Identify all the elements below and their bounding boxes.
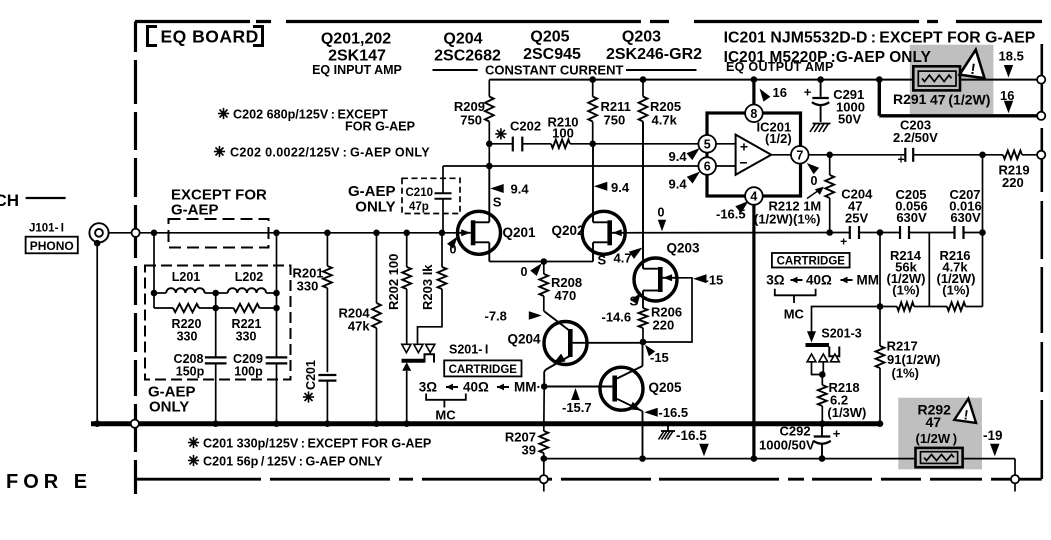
label CH <box>0 191 66 210</box>
svg-text:330: 330 <box>297 279 319 294</box>
svg-text:330: 330 <box>177 330 198 344</box>
svg-text:-16.5: -16.5 <box>716 207 746 222</box>
voltage 9.4 at Q201 drain line <box>490 182 529 197</box>
svg-text:220: 220 <box>1002 175 1024 190</box>
svg-text:L201: L201 <box>172 270 201 284</box>
capacitor C209 100p <box>233 352 287 379</box>
svg-text:R203 Ik: R203 Ik <box>420 264 435 310</box>
svg-text:9.4: 9.4 <box>669 177 688 192</box>
svg-text:G-AEP: G-AEP <box>171 202 219 219</box>
voltage 0 at pin 7 <box>807 163 819 188</box>
open circle bus at border <box>131 420 139 428</box>
EQ board outline bottom border <box>136 478 1042 481</box>
voltage -16.5 at line <box>676 428 709 456</box>
resistor R203 1k <box>418 233 447 344</box>
dashed box EXCEPT FOR G-AEP jumper <box>169 219 269 248</box>
junction network node B <box>979 229 986 236</box>
svg-text:(1%): (1%) <box>892 283 919 298</box>
svg-text:0: 0 <box>521 265 528 279</box>
open circle -19V at border <box>1011 475 1019 483</box>
svg-text:5: 5 <box>704 138 711 152</box>
wire C209 to ground bus <box>276 364 278 424</box>
voltage -16.5 at Q205 emitter <box>644 405 688 420</box>
svg-text:-16.5: -16.5 <box>676 428 707 443</box>
wire node A drop <box>153 233 155 308</box>
arrow at R212 top <box>807 187 824 199</box>
voltage 4.7 at Q203 drain line <box>614 248 643 266</box>
wire 16V constant current rail <box>489 79 1038 81</box>
capacitor C203 2.2/50V <box>893 118 938 167</box>
svg-text:IC201 NJM5532D-D : EXCEPT FOR: IC201 NJM5532D-D : EXCEPT FOR G-AEP <box>724 30 1036 47</box>
svg-text:40Ω: 40Ω <box>463 380 489 395</box>
svg-text:ONLY: ONLY <box>149 399 189 416</box>
svg-text:40Ω: 40Ω <box>806 273 832 288</box>
label G-AEP ONLY lower left <box>148 384 196 416</box>
highlight block behind R291 <box>910 45 994 115</box>
svg-text:2SK246-GR2: 2SK246-GR2 <box>606 46 702 63</box>
svg-text:3Ω: 3Ω <box>419 380 438 395</box>
wire pin 8 to rail <box>752 80 755 105</box>
dashed box G-AEP ONLY network <box>145 266 291 380</box>
svg-text:0: 0 <box>450 243 457 257</box>
wire connector shield to ground bus <box>96 243 98 424</box>
voltage -15 at Q203 gate <box>693 273 723 288</box>
pin 8 of IC201 <box>745 105 763 123</box>
node open circle at border crossing <box>132 229 140 237</box>
capacitor C291 1000 50V <box>804 80 865 127</box>
junction R201 tap <box>324 230 331 237</box>
label EXCEPT FOR G-AEP <box>171 187 267 219</box>
wire C207 to node B <box>964 232 983 234</box>
pin 6 of IC201 <box>698 157 716 175</box>
voltage -16.5 at pin 4 <box>716 201 749 222</box>
voltage 16 at pin 8 <box>760 85 787 102</box>
wire Q201/Q202 sources <box>489 261 593 263</box>
svg-text:R291: R291 <box>893 91 927 107</box>
svg-text:-15: -15 <box>650 350 669 365</box>
svg-text:G-AEP: G-AEP <box>348 183 396 200</box>
resistor R221 330 <box>216 304 277 344</box>
junction R217 bus end <box>877 420 884 427</box>
label CARTRIDGE switch 1 <box>444 360 521 376</box>
capacitor C204 47 25V <box>840 187 873 249</box>
junction feedback R212 <box>826 229 833 236</box>
wire -16.5V line <box>544 459 1015 476</box>
PHONO terminal label <box>26 237 78 254</box>
junction rail C291 <box>817 76 824 83</box>
connector J101-1 jack <box>89 223 108 246</box>
svg-text:-14.6: -14.6 <box>602 310 632 325</box>
label Q204 2SC2682 <box>434 31 501 65</box>
resistor R211 750 <box>588 80 631 144</box>
svg-text:-19: -19 <box>983 428 1003 443</box>
EQ board outline top border <box>135 20 1044 23</box>
junction rail R205 <box>640 76 647 83</box>
svg-text:EQ OUTPUT AMP: EQ OUTPUT AMP <box>726 60 834 74</box>
svg-text:+: + <box>833 426 841 441</box>
highlight block behind R292 <box>898 398 982 470</box>
junction node C on input wire <box>273 230 280 237</box>
svg-text:S201-3: S201-3 <box>821 327 861 341</box>
voltage 0 at source line <box>521 263 542 279</box>
svg-text:25V: 25V <box>845 211 868 226</box>
svg-text:(1/2): (1/2) <box>765 131 792 146</box>
inductor L202 <box>216 270 277 293</box>
wire phono input to Q201 gate <box>109 232 458 234</box>
junction C209 bus <box>273 420 280 427</box>
capacitor C205 0.056 630V <box>895 187 928 239</box>
voltage -14.6 at Q203 source <box>602 293 642 325</box>
junction rail 16V feed <box>876 76 883 83</box>
wire Q202 gate to feedback network <box>625 232 850 234</box>
wire R201 to C201 <box>326 288 328 372</box>
svg-text:2SC945: 2SC945 <box>523 46 581 63</box>
svg-text:FOR G-AEP: FOR G-AEP <box>345 120 415 134</box>
voltage 0 at Q202 gate wire <box>658 206 667 232</box>
wire R207 node off board <box>543 459 545 492</box>
junction C201 bus <box>324 420 331 427</box>
chassis ground at C291 <box>813 123 831 125</box>
wire C208 to ground bus <box>215 364 217 424</box>
svg-text:630V: 630V <box>896 210 927 225</box>
fusible resistor R292 47 1/2W <box>916 402 963 468</box>
voltage 9.4 at pin 6 <box>669 172 701 192</box>
svg-text:+: + <box>740 139 748 155</box>
svg-text:3Ω: 3Ω <box>766 273 785 288</box>
open circle 16V at border <box>1037 112 1045 120</box>
svg-text:(1/2W)(1%): (1/2W)(1%) <box>754 212 820 227</box>
FET Q203 <box>634 122 700 309</box>
voltage 9.4 at Q202 drain line <box>594 180 630 195</box>
wire node C down to C209 <box>276 233 278 357</box>
warning triangle R291 <box>959 48 988 80</box>
wire node A vertical <box>879 233 881 307</box>
svg-text:-7.8: -7.8 <box>485 309 507 324</box>
junction shield at bus <box>94 420 101 427</box>
junction output / RIAA network <box>979 152 986 159</box>
voltage -15.7 at Q204 emitter <box>562 388 592 415</box>
svg-text:-15.7: -15.7 <box>562 400 592 415</box>
resistor R216 4.7k <box>937 248 983 311</box>
svg-text:Q203: Q203 <box>622 29 661 46</box>
chassis ground at bus <box>659 426 676 440</box>
junction R204 bus <box>373 420 380 427</box>
label 3ohm 40ohm MM switch 1 <box>419 380 541 395</box>
junction C292 at -16.5 line <box>819 455 826 462</box>
junction R218 bus <box>819 420 826 427</box>
note C201 56p/125V G-AEP ONLY <box>188 455 383 469</box>
svg-text:MC: MC <box>435 408 456 423</box>
capacitor C210 47p <box>406 166 452 233</box>
svg-text:9.4: 9.4 <box>669 149 688 164</box>
resistor R201 330 <box>292 233 331 294</box>
svg-text:CARTRIDGE: CARTRIDGE <box>777 255 846 267</box>
junction Q204 emitter / Q205 base <box>541 383 548 390</box>
voltage -15 at current mirror node <box>645 345 669 365</box>
svg-text:330: 330 <box>236 330 257 344</box>
resistor R202 100 <box>386 233 411 344</box>
junction node A resistor row <box>877 303 884 310</box>
voltage -7.8 at Q204 collector <box>485 309 542 324</box>
svg-text:C292: C292 <box>780 424 811 439</box>
resistor R217 91 1/2W <box>876 307 941 424</box>
warning triangle R292 <box>954 397 979 424</box>
wire 16V branch <box>879 80 1038 116</box>
svg-text:100p: 100p <box>234 365 263 379</box>
svg-text:16: 16 <box>1000 88 1014 103</box>
svg-text:+: + <box>897 153 904 167</box>
svg-text:47 (1/2W): 47 (1/2W) <box>930 91 990 107</box>
resistor R209 750 <box>454 80 494 166</box>
svg-text:0: 0 <box>811 174 818 188</box>
svg-text:9.4: 9.4 <box>511 182 530 197</box>
capacitor C292 1000/50V <box>759 424 841 459</box>
label Q203 2SK246-GR2 <box>606 29 702 64</box>
junction R211 bottom / pin5 wire <box>589 141 596 148</box>
wire node B down to C208 <box>215 293 217 357</box>
svg-text:C202: C202 <box>510 119 541 134</box>
voltage 9.4 at pin 5 <box>669 148 700 164</box>
inductor L201 <box>154 270 216 293</box>
label CARTRIDGE switch 3 <box>772 253 850 268</box>
svg-text:CARTRIDGE: CARTRIDGE <box>449 364 518 376</box>
svg-text:-15: -15 <box>705 273 724 288</box>
junction R207 at -16.5 line <box>541 455 548 462</box>
svg-text:S201- I: S201- I <box>449 343 488 357</box>
svg-text:FOR E: FOR E <box>6 471 92 493</box>
svg-text:C201: C201 <box>304 360 318 390</box>
svg-text:C201 330p/125V : EXCEPT FOR: C201 330p/125V : EXCEPT FOR G-AEP <box>203 437 431 451</box>
EQ board outline left border <box>134 22 137 53</box>
svg-text:−: − <box>739 155 747 171</box>
svg-text:4.7: 4.7 <box>614 251 632 266</box>
junction Q205 emitter at -16.5 line <box>639 455 646 462</box>
svg-text:CH: CH <box>0 191 19 210</box>
junction R212 top <box>826 152 833 159</box>
junction node C coil/res rows <box>273 290 280 312</box>
svg-text:(1%): (1%) <box>892 366 919 381</box>
junction node A coil row <box>151 290 158 297</box>
svg-text:ONLY: ONLY <box>355 199 395 216</box>
wire network mid vertical <box>928 233 930 307</box>
svg-text:PHONO: PHONO <box>30 239 74 253</box>
svg-text:+: + <box>804 85 812 100</box>
note C202 680p/125V EXCEPT FOR G-AEP <box>218 108 415 134</box>
svg-text:47: 47 <box>926 414 942 430</box>
label 3ohm 40ohm MM switch 3 <box>766 273 879 288</box>
svg-text:7: 7 <box>796 149 803 163</box>
pin 4 of IC201 <box>745 187 763 205</box>
wire -19V off board <box>1014 483 1016 492</box>
FET Q201 <box>458 166 537 262</box>
wire C204 to network <box>859 232 900 234</box>
junction node A on input wire <box>151 230 158 237</box>
resistor R218 6.2 1/3W <box>818 375 867 424</box>
resistor R210 100 <box>547 115 592 149</box>
svg-text:Q201: Q201 <box>503 225 537 240</box>
svg-text:C201 56p / 125V : G-AEP ONLY: C201 56p / 125V : G-AEP ONLY <box>203 455 383 469</box>
junction R208 tap <box>541 258 548 265</box>
transistor Q205 <box>544 342 682 459</box>
svg-text:EQ BOARD: EQ BOARD <box>161 27 259 47</box>
svg-text:-16.5: -16.5 <box>659 405 689 420</box>
resistor R204 47k <box>339 233 381 424</box>
capacitor C201 <box>303 360 337 403</box>
svg-text:(1%): (1%) <box>942 283 969 298</box>
junction rail pin8 <box>751 76 758 83</box>
label G-AEP ONLY near C210 <box>348 183 396 216</box>
note C202 0.0022/125V G-AEP ONLY <box>214 146 430 160</box>
svg-text:50V: 50V <box>838 112 861 127</box>
svg-text:MM: MM <box>857 273 880 288</box>
svg-text:750: 750 <box>604 113 626 128</box>
junction C208 bus <box>212 420 219 427</box>
svg-text:(1/3W): (1/3W) <box>827 405 866 420</box>
open circle 18.5V at border <box>1037 76 1045 84</box>
ground bus <box>91 421 881 426</box>
resistor R212 1M <box>754 155 834 233</box>
junction S201-3 to R218 <box>819 371 826 378</box>
junction network node A <box>877 229 884 236</box>
label CONSTANT CURRENT <box>433 63 697 78</box>
svg-text:39: 39 <box>522 443 536 458</box>
junction pin4 lead at -16.5 line <box>751 455 758 462</box>
svg-text:J101- I: J101- I <box>29 223 64 235</box>
svg-text:Q205: Q205 <box>649 380 683 395</box>
wire node B vertical <box>982 155 984 307</box>
switch S201-1 <box>402 343 489 424</box>
svg-text:18.5: 18.5 <box>999 49 1024 64</box>
resistor R219 220 <box>999 151 1039 190</box>
wire C201 to ground bus <box>326 381 328 424</box>
svg-text:2SK147: 2SK147 <box>328 48 386 65</box>
junction R204 tap <box>373 230 380 237</box>
svg-text:L202: L202 <box>235 270 264 284</box>
label Q201,202 2SK147 EQ INPUT AMP <box>312 31 402 78</box>
wire to op-amp pin 6 <box>443 163 698 170</box>
wire Q203 gate loop <box>643 278 692 342</box>
svg-text:C210: C210 <box>406 187 434 199</box>
pin 7 of IC201 <box>791 146 809 164</box>
label Q205 2SC945 <box>523 29 581 64</box>
wire network node to S201-3 <box>812 307 881 332</box>
junction Q203 gate / Q204 collector node <box>640 339 647 346</box>
svg-text:+: + <box>840 235 847 249</box>
svg-text:150p: 150p <box>176 365 205 379</box>
svg-text:S: S <box>598 253 607 268</box>
svg-text:CONSTANT CURRENT: CONSTANT CURRENT <box>485 63 623 78</box>
svg-text:220: 220 <box>653 318 675 333</box>
dashed box C210 <box>402 178 460 213</box>
svg-text:0: 0 <box>658 206 665 220</box>
junction R203/C210 tap <box>439 230 446 237</box>
capacitor C202 <box>489 119 551 152</box>
svg-text:EQ INPUT AMP: EQ INPUT AMP <box>312 63 402 77</box>
svg-text:4.7k: 4.7k <box>652 113 678 128</box>
svg-text:630V: 630V <box>950 210 981 225</box>
wire pin 7 output <box>809 154 1003 156</box>
svg-text:Q203: Q203 <box>667 241 701 256</box>
svg-text:16: 16 <box>773 85 787 100</box>
svg-text:9.4: 9.4 <box>611 180 630 195</box>
resistor R206 220 <box>639 305 682 343</box>
svg-text:6: 6 <box>704 160 711 174</box>
EQ BOARD title <box>148 27 263 47</box>
resistor R208 470 <box>539 262 582 312</box>
wire C205 to C207 <box>909 232 955 234</box>
wire pin 4 to -16.5 rail <box>752 205 755 459</box>
junction R202 tap <box>403 230 410 237</box>
switch S201-3 <box>806 327 862 375</box>
voltage -19 supply <box>983 428 1003 456</box>
svg-text:47k: 47k <box>348 319 370 334</box>
svg-text:Q204: Q204 <box>443 31 482 48</box>
EQ board outline right border <box>1041 44 1044 479</box>
junction rail R211 <box>589 76 596 83</box>
svg-text:1000/50V: 1000/50V <box>759 438 815 453</box>
voltage 0 at Q201 gate <box>447 236 458 256</box>
label MC bracket switch 1 <box>426 394 466 423</box>
fusible resistor R291 47 1/2W <box>893 66 990 107</box>
svg-text:Q202: Q202 <box>552 223 585 238</box>
svg-text:8: 8 <box>750 107 757 121</box>
resistor R220 330 <box>154 304 216 344</box>
resistor R207 39 <box>505 387 548 459</box>
svg-text:(1/2W ): (1/2W ) <box>916 431 958 446</box>
junction R209 C202 <box>486 141 493 148</box>
svg-text:2.2/50V: 2.2/50V <box>893 130 938 145</box>
svg-text:4: 4 <box>750 190 757 204</box>
junction node B coil/res rows <box>212 290 219 312</box>
open circle output at border <box>1037 151 1045 159</box>
wire to op-amp pin 5 <box>593 143 699 145</box>
capacitor C208 150p <box>174 352 227 379</box>
resistor R214 56k <box>880 248 947 311</box>
note C201 330p/125V EXCEPT FOR G-AEP <box>188 437 431 451</box>
svg-text:Q201,202: Q201,202 <box>321 31 391 48</box>
svg-text:MC: MC <box>784 307 805 322</box>
svg-text:47p: 47p <box>409 201 429 213</box>
svg-text:Q205: Q205 <box>530 29 569 46</box>
svg-text:470: 470 <box>555 288 577 303</box>
resistor R205 4.7k <box>639 80 681 269</box>
svg-text:MM·: MM· <box>514 380 541 395</box>
voltage 16 supply branch <box>1000 88 1014 113</box>
open circle R207 at border <box>540 475 548 483</box>
svg-text:750: 750 <box>460 113 482 128</box>
capacitor C207 0.016 630V <box>949 187 982 239</box>
label MC bracket switch 3 <box>775 289 816 322</box>
FET Q202 <box>552 144 626 262</box>
pin 5 of IC201 <box>698 135 716 153</box>
svg-text:Q204: Q204 <box>508 332 542 347</box>
op-amp IC201 block <box>707 113 801 196</box>
svg-text:S: S <box>493 195 502 210</box>
junction S201-1 bus <box>403 420 410 427</box>
svg-text:R202 100: R202 100 <box>386 254 401 310</box>
svg-text:C202 0.0022/125V : G-AEP ONLY: C202 0.0022/125V : G-AEP ONLY <box>230 146 430 160</box>
voltage 18.5 supply <box>999 49 1024 78</box>
transistor Q204 <box>508 311 644 387</box>
